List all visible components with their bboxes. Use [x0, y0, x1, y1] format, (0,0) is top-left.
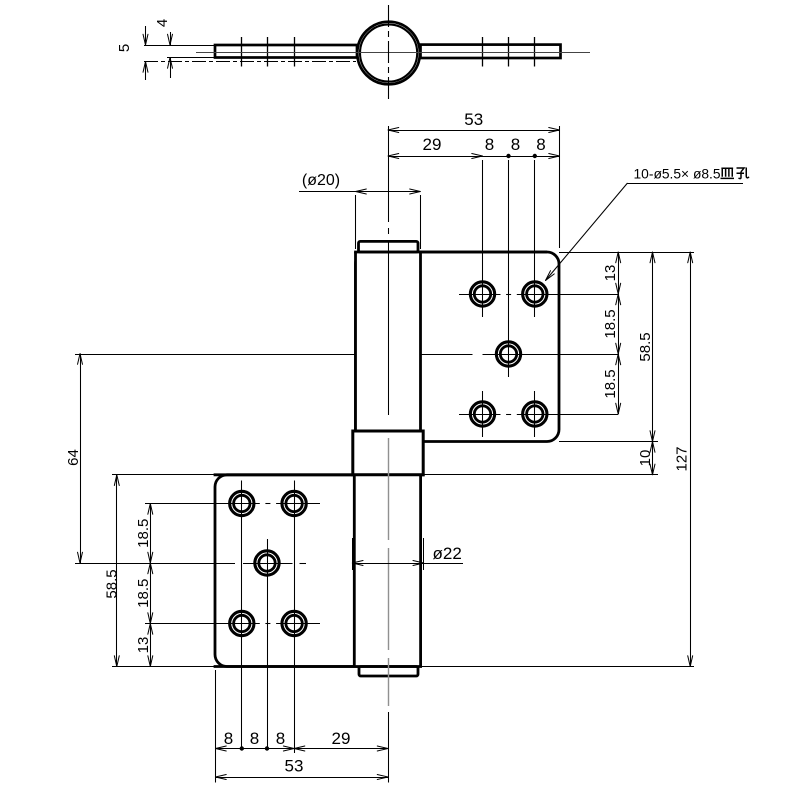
svg-text:53: 53: [464, 110, 483, 129]
svg-text:8: 8: [224, 729, 233, 748]
svg-text:4: 4: [154, 19, 171, 27]
svg-text:18.5: 18.5: [602, 369, 619, 398]
svg-text:10-ø5.5× ø8.5: 10-ø5.5× ø8.5: [634, 167, 721, 182]
svg-text:8: 8: [536, 135, 545, 154]
svg-text:8: 8: [276, 729, 285, 748]
svg-text:13: 13: [602, 265, 619, 282]
svg-text:18.5: 18.5: [135, 579, 152, 608]
svg-text:ø22: ø22: [433, 544, 462, 563]
svg-text:18.5: 18.5: [602, 309, 619, 338]
svg-text:29: 29: [332, 729, 351, 748]
svg-text:18.5: 18.5: [135, 519, 152, 548]
svg-text:8: 8: [250, 729, 259, 748]
svg-text:8: 8: [511, 135, 520, 154]
svg-text:64: 64: [65, 449, 82, 466]
svg-text:29: 29: [423, 135, 442, 154]
svg-text:127: 127: [674, 446, 691, 471]
svg-text:10: 10: [637, 450, 654, 467]
svg-text:5: 5: [116, 44, 133, 52]
svg-text:(ø20): (ø20): [302, 172, 340, 189]
svg-text:58.5: 58.5: [104, 569, 121, 598]
svg-text:53: 53: [285, 756, 304, 775]
svg-text:13: 13: [135, 637, 152, 654]
svg-text:8: 8: [485, 135, 494, 154]
svg-text:58.5: 58.5: [637, 332, 654, 361]
